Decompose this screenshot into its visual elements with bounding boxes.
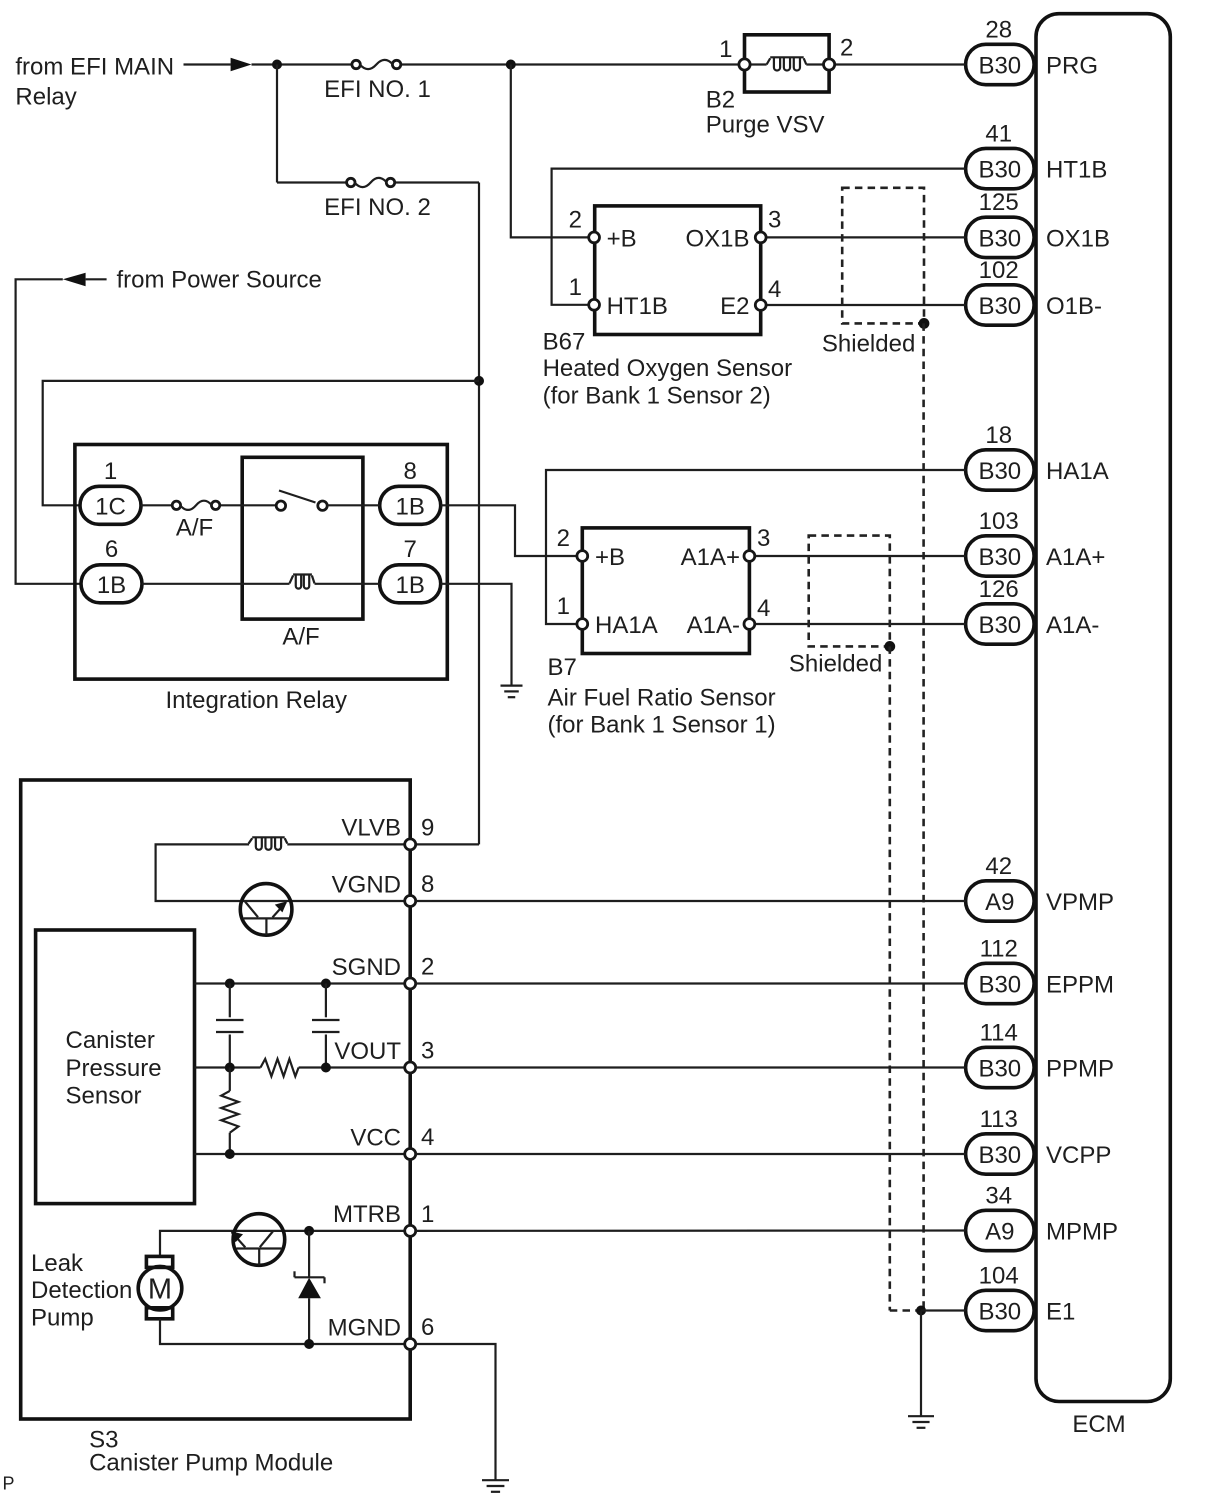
- ECM pin 42 connector A9 VPMP: [966, 881, 1035, 921]
- wire pin 4 VCC to ECM VCPP: [416, 1153, 966, 1155]
- svg-text:MPMP: MPMP: [1046, 1219, 1118, 1246]
- svg-text:VOUT: VOUT: [334, 1038, 401, 1065]
- svg-text:A9: A9: [985, 1219, 1014, 1246]
- ECM module body: [1036, 14, 1170, 1402]
- svg-text:Sensor: Sensor: [66, 1082, 142, 1109]
- wire E2 to ECM: [766, 304, 966, 306]
- svg-text:Air Fuel Ratio Sensor: Air Fuel Ratio Sensor: [548, 685, 776, 712]
- svg-text:18: 18: [985, 422, 1012, 449]
- svg-text:MTRB: MTRB: [333, 1201, 401, 1228]
- shield drain node: [919, 318, 930, 329]
- svg-text:Pressure: Pressure: [66, 1055, 162, 1082]
- svg-text:41: 41: [985, 120, 1012, 147]
- wire pin 6 MGND to ground: [416, 1344, 496, 1480]
- svg-text:Canister Pump Module: Canister Pump Module: [89, 1450, 333, 1477]
- svg-text:ECM: ECM: [1072, 1411, 1125, 1438]
- junction node relay feed tee: [474, 376, 484, 386]
- wire relay pin 8 to A/F sensor +B: [441, 505, 577, 556]
- svg-text:103: 103: [979, 508, 1019, 535]
- canister pump module body: [21, 780, 411, 1419]
- ECM pin 18 connector B30 HA1A: [966, 450, 1035, 490]
- wire EFI main feed: [184, 63, 231, 65]
- svg-text:B30: B30: [978, 1056, 1021, 1083]
- purge VSV coil: [767, 58, 771, 64]
- junction node VOUT/C2: [321, 1063, 331, 1073]
- svg-text:Purge VSV: Purge VSV: [706, 111, 825, 138]
- canister pressure sensor body: [36, 930, 195, 1204]
- svg-text:OX1B: OX1B: [685, 225, 749, 252]
- wire down to ground: [920, 1311, 922, 1417]
- resistor (pull, vertical): [229, 1068, 231, 1091]
- B67 sensor body: [595, 206, 761, 335]
- junction node VOUT/C1/R2: [225, 1063, 235, 1073]
- purge VSV pin 2: [824, 59, 835, 70]
- junction node (B67 +B branch): [506, 60, 516, 70]
- svg-text:VLVB: VLVB: [341, 815, 401, 842]
- wire relay pin 7 to ground: [441, 584, 512, 686]
- wire EFI NO.2 branch vertical: [276, 65, 278, 183]
- module pin 1 MTRB: [405, 1225, 416, 1236]
- wire to E1 terminal: [921, 1309, 966, 1311]
- wire pin 6 to coil: [142, 583, 290, 585]
- svg-text:Integration Relay: Integration Relay: [166, 687, 347, 714]
- svg-text:A9: A9: [985, 889, 1014, 916]
- ECM pin 102 connector B30 O1B-: [966, 285, 1035, 325]
- svg-text:B30: B30: [978, 1142, 1021, 1169]
- svg-text:(for Bank 1 Sensor 1): (for Bank 1 Sensor 1): [548, 712, 776, 739]
- ground (E1/shield): [908, 1415, 934, 1417]
- svg-text:B30: B30: [978, 972, 1021, 999]
- svg-text:Canister: Canister: [66, 1027, 155, 1054]
- svg-text:114: 114: [980, 1019, 1018, 1046]
- wire 1C to switch: [141, 504, 173, 506]
- B7 sensor body: [582, 528, 749, 654]
- ground (MGND): [482, 1479, 509, 1481]
- svg-text:1B: 1B: [396, 493, 425, 520]
- wire A1A- to ECM: [755, 623, 966, 625]
- ECM pin 104 connector B30 E1: [966, 1290, 1035, 1330]
- svg-text:Shielded: Shielded: [789, 651, 882, 678]
- svg-text:34: 34: [985, 1182, 1012, 1209]
- wire VCC row: [195, 1153, 405, 1155]
- svg-text:(for Bank 1 Sensor 2): (for Bank 1 Sensor 2): [543, 383, 771, 410]
- wire long vertical from EFI NO.2 to pin 9: [478, 183, 480, 845]
- svg-text:28: 28: [985, 16, 1012, 43]
- svg-text:SGND: SGND: [332, 954, 401, 981]
- shield drain node 2: [884, 641, 895, 652]
- leak detection pump motor M: [138, 1266, 182, 1310]
- B7 pin 1: [577, 619, 588, 630]
- wire OX1B to ECM: [766, 236, 966, 238]
- ECM pin 114 connector B30 PPMP: [966, 1047, 1035, 1087]
- svg-text:Shielded: Shielded: [822, 330, 915, 357]
- svg-text:PRG: PRG: [1046, 53, 1098, 80]
- wire A1A+ to ECM: [755, 555, 966, 557]
- svg-text:2: 2: [421, 954, 434, 981]
- svg-text:B30: B30: [978, 1299, 1021, 1326]
- svg-text:6: 6: [421, 1314, 434, 1341]
- svg-text:B30: B30: [978, 225, 1021, 252]
- junction node MTRB/diode: [304, 1226, 314, 1236]
- ECM pin 103 connector B30 A1A+: [966, 536, 1035, 576]
- svg-text:A/F: A/F: [282, 624, 319, 651]
- B7 pin 3: [744, 551, 755, 562]
- junction node E1/shield ground: [916, 1306, 926, 1316]
- dashed elbow to E1: [890, 1309, 921, 1312]
- svg-text:E1: E1: [1046, 1299, 1075, 1326]
- capacitor C2: [325, 984, 327, 1018]
- shield box (B7 wires): [809, 536, 890, 647]
- svg-text:A1A+: A1A+: [1046, 544, 1105, 571]
- svg-text:1: 1: [557, 593, 570, 620]
- relay coil A/F: [290, 576, 294, 584]
- ECM pin 125 connector B30 OX1B: [966, 217, 1035, 257]
- svg-text:6: 6: [105, 536, 118, 563]
- svg-text:VPMP: VPMP: [1046, 889, 1114, 916]
- svg-text:B2: B2: [706, 87, 735, 114]
- svg-text:2: 2: [569, 206, 582, 233]
- svg-text:P: P: [3, 1474, 15, 1494]
- B67 pin 3: [755, 232, 766, 243]
- svg-text:42: 42: [985, 853, 1012, 880]
- svg-text:112: 112: [980, 935, 1018, 962]
- svg-text:EFI NO. 1: EFI NO. 1: [324, 76, 431, 103]
- transistor (valve driver): [240, 884, 292, 936]
- svg-text:125: 125: [979, 189, 1019, 216]
- svg-text:3: 3: [768, 206, 781, 233]
- svg-text:B67: B67: [543, 328, 586, 355]
- module pin 2 SGND: [405, 978, 416, 989]
- svg-text:A1A+: A1A+: [681, 544, 740, 571]
- svg-text:O1B-: O1B-: [1046, 293, 1102, 320]
- svg-text:Relay: Relay: [15, 83, 76, 110]
- junction node MGND/diode: [304, 1339, 314, 1349]
- purge VSV B2 body: [745, 35, 830, 92]
- svg-text:B30: B30: [978, 544, 1021, 571]
- shield drain dashed line down 2: [888, 646, 891, 1310]
- svg-text:B30: B30: [978, 612, 1021, 639]
- wire MGND row: [160, 1319, 405, 1344]
- svg-text:HT1B: HT1B: [607, 293, 668, 320]
- svg-text:102: 102: [979, 257, 1019, 284]
- svg-text:HT1B: HT1B: [1046, 157, 1107, 184]
- svg-text:4: 4: [421, 1124, 434, 1151]
- ECM pin 126 connector B30 A1A-: [966, 604, 1035, 644]
- wire +B feed from EFI NO.1 junction: [511, 65, 589, 238]
- svg-text:Leak: Leak: [31, 1250, 84, 1277]
- svg-text:VCC: VCC: [350, 1124, 401, 1151]
- svg-text:7: 7: [404, 536, 417, 563]
- shield drain dashed line down: [922, 323, 925, 1310]
- svg-text:9: 9: [421, 814, 434, 841]
- wire VLVB row with coil: [287, 843, 405, 845]
- svg-text:4: 4: [757, 595, 770, 622]
- relay contact/coil inner box: [242, 457, 363, 619]
- wire relay feed (to pin 1C): [43, 381, 479, 505]
- transistor (motor driver): [233, 1214, 285, 1266]
- relay switch: [276, 501, 285, 510]
- module pin 8 VGND: [405, 896, 416, 907]
- svg-text:B30: B30: [978, 293, 1021, 320]
- junction node (EFI NO.2 branch): [272, 60, 282, 70]
- svg-text:EFI NO. 2: EFI NO. 2: [324, 194, 431, 221]
- B7 pin 2: [577, 551, 588, 562]
- module pin 9 VLVB: [405, 839, 416, 850]
- wire MTRB row: [160, 1231, 405, 1257]
- svg-text:1: 1: [421, 1201, 434, 1228]
- B67 pin 2: [589, 232, 600, 243]
- svg-text:B30: B30: [978, 157, 1021, 184]
- svg-text:E2: E2: [720, 293, 749, 320]
- svg-text:VCPP: VCPP: [1046, 1142, 1111, 1169]
- shield box (B67 wires): [842, 188, 924, 324]
- B7 pin 4: [744, 619, 755, 630]
- fuse EFI NO. 2: [347, 178, 355, 186]
- svg-text:MGND: MGND: [328, 1314, 401, 1341]
- svg-text:8: 8: [421, 871, 434, 898]
- svg-text:M: M: [148, 1273, 172, 1305]
- svg-text:2: 2: [557, 525, 570, 552]
- svg-text:EPPM: EPPM: [1046, 972, 1114, 999]
- svg-text:8: 8: [404, 458, 417, 485]
- wire SGND row: [195, 982, 405, 984]
- relay terminal 1 (1C): [80, 486, 141, 524]
- svg-text:1B: 1B: [396, 572, 425, 599]
- fuse EFI NO. 1: [352, 60, 360, 68]
- arrowhead right: [231, 58, 252, 71]
- svg-text:1: 1: [104, 458, 117, 485]
- relay terminal 6 (1B): [81, 565, 142, 603]
- wire from power source to relay pin 6: [16, 279, 80, 584]
- wire pin 2 SGND to ECM EPPM: [416, 982, 966, 984]
- svg-text:B30: B30: [978, 458, 1021, 485]
- svg-text:1B: 1B: [97, 572, 126, 599]
- wire pin 8 VGND to ECM VPMP: [416, 900, 966, 902]
- svg-text:VGND: VGND: [332, 871, 401, 898]
- svg-text:PPMP: PPMP: [1046, 1056, 1114, 1083]
- svg-text:A1A-: A1A-: [1046, 612, 1099, 639]
- svg-text:1C: 1C: [95, 493, 126, 520]
- junction node SGND/C2: [321, 979, 331, 989]
- wire HT1B from ECM: [552, 169, 966, 305]
- ECM pin 113 connector B30 VCPP: [966, 1134, 1035, 1174]
- relay terminal 7 (1B): [380, 565, 441, 603]
- relay terminal 8 (1B): [380, 486, 441, 524]
- module pin 6 MGND: [405, 1339, 416, 1350]
- arrowhead left: [63, 273, 86, 286]
- module pin 3 VOUT: [405, 1062, 416, 1073]
- svg-text:3: 3: [757, 525, 770, 552]
- junction node VCC/R2: [225, 1149, 235, 1159]
- svg-text:Detection: Detection: [31, 1277, 132, 1304]
- svg-text:OX1B: OX1B: [1046, 225, 1110, 252]
- resistor (series, horizontal): [261, 1059, 299, 1076]
- ECM pin 28 connector B30 PRG: [966, 44, 1035, 84]
- wire VOUT row: [195, 1066, 261, 1068]
- svg-text:B7: B7: [548, 654, 577, 681]
- junction node SGND/C1: [225, 979, 235, 989]
- wire pin 1 MTRB to ECM MPMP: [416, 1229, 966, 1232]
- integration relay body: [75, 445, 447, 680]
- wire EFI NO.2 row: [277, 181, 347, 183]
- svg-text:HA1A: HA1A: [1046, 458, 1109, 485]
- svg-text:4: 4: [768, 276, 781, 303]
- svg-text:+B: +B: [607, 225, 637, 252]
- svg-text:3: 3: [421, 1038, 434, 1065]
- module pin 4 VCC: [405, 1149, 416, 1160]
- svg-text:Heated Oxygen Sensor: Heated Oxygen Sensor: [543, 355, 792, 382]
- ECM pin 34 connector A9 MPMP: [966, 1210, 1035, 1250]
- svg-text:HA1A: HA1A: [595, 612, 658, 639]
- purge VSV pin 1: [739, 59, 750, 70]
- zener diode (flyback): [308, 1231, 310, 1277]
- svg-text:A/F: A/F: [176, 515, 213, 542]
- ground (relay): [501, 684, 523, 686]
- svg-text:from Power Source: from Power Source: [117, 267, 322, 294]
- B67 pin 4: [755, 300, 766, 311]
- svg-text:126: 126: [979, 576, 1019, 603]
- svg-text:+B: +B: [595, 544, 625, 571]
- B67 pin 1: [589, 299, 600, 310]
- ECM pin 112 connector B30 EPPM: [966, 963, 1035, 1003]
- svg-text:A1A-: A1A-: [687, 612, 740, 639]
- svg-text:2: 2: [840, 35, 853, 62]
- svg-text:B30: B30: [978, 53, 1021, 80]
- wire pin 3 VOUT to ECM PPMP: [416, 1066, 966, 1068]
- ECM pin 41 connector B30 HT1B: [966, 148, 1035, 188]
- svg-text:113: 113: [980, 1106, 1018, 1133]
- svg-text:Pump: Pump: [31, 1305, 94, 1332]
- svg-text:1: 1: [719, 36, 732, 63]
- wire switch to pin 8: [327, 504, 380, 506]
- capacitor C1: [229, 984, 231, 1018]
- fuse A/F: [172, 501, 180, 509]
- svg-text:104: 104: [979, 1262, 1019, 1289]
- svg-text:from EFI MAIN: from EFI MAIN: [15, 54, 174, 81]
- wire HA1A from ECM: [546, 470, 966, 624]
- svg-text:1: 1: [569, 274, 582, 301]
